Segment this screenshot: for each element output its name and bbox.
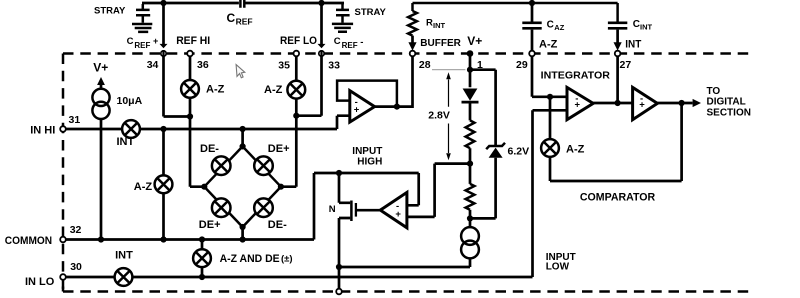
svg-text:STRAY: STRAY xyxy=(94,6,126,17)
svg-text:34: 34 xyxy=(147,59,159,71)
node junction CREF+ top xyxy=(160,0,166,6)
svg-text:HIGH: HIGH xyxy=(357,156,382,167)
switch DE- upper-left xyxy=(212,156,231,175)
zener 6.2V xyxy=(486,143,505,149)
switch INT on IN HI xyxy=(122,120,140,138)
node junction pin35/33 xyxy=(293,113,299,119)
svg-text:DE+: DE+ xyxy=(268,143,290,155)
switch A-Z on pin36 line xyxy=(181,80,199,98)
node junctions on COMMON xyxy=(98,236,104,242)
switch INT on IN LO xyxy=(115,268,133,286)
svg-text:BUFFER: BUFFER xyxy=(420,38,461,49)
wire CREF+ / pin 34 xyxy=(164,4,191,117)
svg-text:COMPARATOR: COMPARATOR xyxy=(580,191,655,203)
pin 27 xyxy=(615,51,621,57)
wire buffer feedback xyxy=(337,81,397,107)
pin 29 xyxy=(529,51,535,57)
svg-text:INT: INT xyxy=(640,22,653,31)
svg-text:IN LO: IN LO xyxy=(25,276,55,288)
capacitor stray left xyxy=(136,4,150,23)
wire IN LO xyxy=(66,110,567,277)
ground stray right xyxy=(332,24,353,32)
svg-text:+: + xyxy=(395,209,401,220)
svg-text:A-Z AND DE: A-Z AND DE xyxy=(220,253,280,265)
node junction pin34/36 xyxy=(187,113,193,119)
svg-text:DE-: DE- xyxy=(200,143,219,155)
svg-text:DE+: DE+ xyxy=(199,219,221,231)
svg-text:A-Z: A-Z xyxy=(566,143,585,155)
svg-text:A-Z: A-Z xyxy=(539,39,558,51)
svg-text:+: + xyxy=(153,36,158,46)
svg-text:31: 31 xyxy=(69,114,81,126)
svg-text:A-Z: A-Z xyxy=(206,84,225,96)
capacitor CREF xyxy=(240,0,244,8)
svg-text:REF: REF xyxy=(342,41,358,50)
switch DE+ lower-left xyxy=(212,198,231,217)
wire input high + input xyxy=(408,164,471,217)
current source 10uA xyxy=(92,89,109,106)
svg-text:REF: REF xyxy=(134,41,150,50)
resistor upper (V+ branch) xyxy=(466,120,475,148)
bridge of DE switches xyxy=(241,129,244,146)
node bridge right xyxy=(278,184,284,190)
svg-text:6.2V: 6.2V xyxy=(508,146,530,158)
svg-text:INT: INT xyxy=(115,249,133,261)
capacitor stray right xyxy=(336,4,350,23)
svg-text:IN HI: IN HI xyxy=(30,124,55,136)
svg-text:33: 33 xyxy=(328,59,340,71)
svg-text:+: + xyxy=(575,100,581,111)
wire A-Z comparator branch xyxy=(550,97,682,181)
wire integrator output xyxy=(593,102,632,105)
mouse cursor xyxy=(236,65,245,78)
resistor lower (V+ branch) xyxy=(466,184,475,210)
resistor RINT xyxy=(413,3,618,22)
dashed box bottom-left corner stub xyxy=(62,287,65,292)
capacitor CAZ xyxy=(531,3,534,51)
wire V+ branch xyxy=(470,56,496,145)
svg-text:REF HI: REF HI xyxy=(176,35,210,47)
svg-text:V+: V+ xyxy=(467,34,482,48)
pin 1 xyxy=(467,50,474,57)
wire buffer output to pin 28 xyxy=(375,56,413,106)
svg-text:2.8V: 2.8V xyxy=(428,110,450,122)
svg-text:(±): (±) xyxy=(281,254,293,265)
switch A-Z AND DE xyxy=(193,249,211,267)
svg-text:LOW: LOW xyxy=(546,261,570,272)
pin 32 COMMON xyxy=(60,237,66,243)
svg-text:C: C xyxy=(334,36,341,47)
svg-text:27: 27 xyxy=(620,59,632,71)
svg-text:32: 32 xyxy=(70,224,82,236)
arrow CREF+ into pin 34 xyxy=(160,44,168,48)
pin 30 IN LO xyxy=(60,274,66,280)
svg-text:A-Z: A-Z xyxy=(264,84,283,96)
diode on V+ branch xyxy=(463,89,478,101)
arrow to digital section xyxy=(693,99,701,107)
wire comparator output xyxy=(657,102,692,105)
svg-text:+: + xyxy=(354,105,360,116)
svg-text:INT: INT xyxy=(625,39,641,51)
current source (input low) xyxy=(461,227,479,245)
op-amp input high xyxy=(380,192,407,227)
op-amp comparator xyxy=(633,87,658,119)
svg-text:DIGITAL: DIGITAL xyxy=(707,96,746,107)
svg-text:REF: REF xyxy=(236,16,253,26)
arrow V+ up xyxy=(97,77,105,85)
svg-text:+: + xyxy=(639,99,645,110)
node bridge top xyxy=(240,143,246,149)
pin 31 IN HI xyxy=(60,126,66,132)
wire pin 27 to integrator output xyxy=(616,56,619,103)
svg-text:REF LO: REF LO xyxy=(280,35,317,47)
wire REF HI / pin 36 xyxy=(190,56,204,186)
svg-text:INPUT: INPUT xyxy=(352,146,382,157)
wire COMMON xyxy=(66,173,419,240)
wire top reference bus left xyxy=(142,2,344,5)
svg-text:AZ: AZ xyxy=(554,23,564,32)
svg-text:28: 28 xyxy=(419,59,431,71)
svg-text:C: C xyxy=(547,20,554,31)
arrow CREF- into pin 33 xyxy=(318,44,326,48)
pin 36 circle xyxy=(187,51,193,57)
arrow CINT into pin 27 xyxy=(614,42,622,50)
svg-text:INTEGRATOR: INTEGRATOR xyxy=(541,70,611,81)
wire A-Z branch (IN HI to COMMON) xyxy=(162,129,165,240)
svg-text:C: C xyxy=(633,19,640,30)
svg-text:STRAY: STRAY xyxy=(355,7,387,18)
ground stray left xyxy=(132,24,152,32)
transistor N mosfet xyxy=(339,173,350,203)
svg-text:COMMON: COMMON xyxy=(5,235,52,247)
svg-text:29: 29 xyxy=(516,59,528,71)
node junction CREF- top xyxy=(318,0,324,6)
svg-text:C: C xyxy=(227,11,236,25)
switch A-Z on pin35 line xyxy=(287,81,305,99)
pin common bottom xyxy=(336,289,342,295)
node bridge bottom xyxy=(240,224,246,230)
wire A-Z AND DE branch xyxy=(201,240,204,278)
pin 35 circle xyxy=(294,51,300,57)
capacitor CINT xyxy=(616,30,619,44)
pin 28 xyxy=(410,51,416,57)
svg-text:INT: INT xyxy=(117,136,135,148)
op-amp buffer xyxy=(350,91,375,123)
svg-text:SECTION: SECTION xyxy=(707,107,751,118)
switch DE- lower-right xyxy=(254,198,273,217)
op-amp integrator xyxy=(567,87,593,119)
svg-text:INT: INT xyxy=(433,21,446,30)
svg-text:36: 36 xyxy=(197,59,209,71)
node bridge left xyxy=(201,184,207,190)
svg-text:DE-: DE- xyxy=(268,219,287,231)
wire REF LO / pin 35 xyxy=(281,56,296,186)
arrow RINT into pin 28 xyxy=(408,42,416,50)
switch A-Z comparator xyxy=(541,139,559,157)
svg-text:R: R xyxy=(426,18,433,29)
svg-text:N: N xyxy=(329,204,336,215)
switch A-Z mid-left xyxy=(155,175,173,193)
svg-text:-: - xyxy=(360,37,363,48)
svg-text:V+: V+ xyxy=(93,61,108,75)
svg-text:C: C xyxy=(127,36,134,47)
wire IN HI xyxy=(66,116,350,129)
2.8V dimension line xyxy=(448,80,450,154)
svg-text:35: 35 xyxy=(278,59,290,71)
2.8V dimension reference (grey) xyxy=(432,69,465,71)
wire pin 29 to integrator xyxy=(532,56,567,97)
wire CREF- / pin 33 xyxy=(296,4,321,116)
svg-text:30: 30 xyxy=(70,261,82,273)
svg-text:10μA: 10μA xyxy=(117,95,143,107)
svg-text:A-Z: A-Z xyxy=(134,181,153,193)
chip boundary dashed box xyxy=(63,54,752,292)
switch DE+ upper-right xyxy=(254,156,273,175)
